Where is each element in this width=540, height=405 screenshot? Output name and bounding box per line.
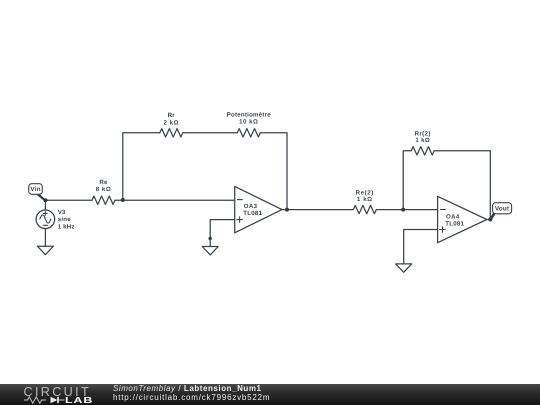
svg-text:1 kHz: 1 kHz bbox=[58, 223, 75, 230]
svg-text:V3: V3 bbox=[58, 209, 66, 216]
svg-text:Re: Re bbox=[99, 179, 108, 186]
svg-text:10 kΩ: 10 kΩ bbox=[239, 119, 258, 126]
svg-text:2 kΩ: 2 kΩ bbox=[164, 119, 180, 126]
svg-text:Rr: Rr bbox=[168, 112, 176, 119]
svg-text:1 kΩ: 1 kΩ bbox=[415, 137, 430, 144]
svg-text:TL081: TL081 bbox=[445, 221, 464, 228]
svg-text:8 kΩ: 8 kΩ bbox=[96, 186, 112, 193]
svg-text:OA4: OA4 bbox=[446, 214, 460, 221]
svg-text:Vin: Vin bbox=[30, 186, 40, 193]
svg-text:sine: sine bbox=[58, 216, 72, 223]
svg-text:Potentiomètre: Potentiomètre bbox=[227, 111, 272, 118]
svg-text:1 kΩ: 1 kΩ bbox=[357, 196, 373, 203]
svg-text:TL081: TL081 bbox=[243, 210, 262, 217]
svg-text:Vout: Vout bbox=[495, 205, 510, 212]
